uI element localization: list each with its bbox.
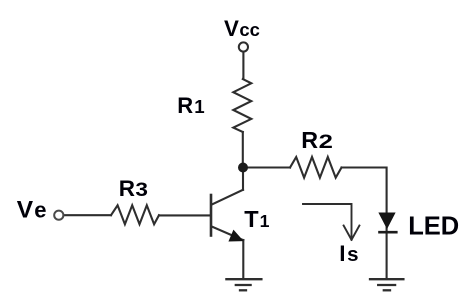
wire Ve terminal to R3 — [64, 214, 112, 216]
transistor T1 emitter diagonal — [212, 227, 244, 241]
LED cathode bar — [378, 231, 397, 234]
ground (emitter) — [226, 279, 261, 290]
resistor R1 — [233, 79, 251, 132]
terminal Vcc — [239, 42, 248, 51]
resistor R3 — [111, 205, 159, 224]
node junction dot — [238, 163, 248, 173]
wire node to R2 — [243, 166, 290, 168]
svg-text:R3: R3 — [119, 176, 148, 201]
transistor T1 base bar — [210, 195, 213, 236]
svg-text:Ve: Ve — [17, 197, 47, 224]
resistor R2 — [290, 157, 342, 178]
wire collector to node — [242, 168, 244, 190]
terminal Ve — [54, 211, 63, 220]
wire R1 to node — [242, 132, 244, 168]
wire LED cathode to ground — [386, 227, 388, 279]
svg-text:Vcc: Vcc — [224, 16, 260, 41]
svg-text:R2: R2 — [301, 127, 333, 153]
current arrow Is — [303, 204, 359, 240]
transistor T1 emitter arrowhead — [229, 231, 242, 241]
wire R2 to LED — [342, 168, 387, 214]
svg-text:LED: LED — [408, 212, 459, 240]
wire emitter to ground — [242, 240, 244, 279]
svg-text:T1: T1 — [244, 206, 269, 232]
wire base to R3 — [159, 214, 210, 216]
LED diode triangle — [379, 213, 395, 228]
svg-text:Is: Is — [339, 241, 358, 266]
transistor T1 collector diagonal — [212, 190, 243, 205]
svg-text:R1: R1 — [177, 93, 204, 118]
wire Vcc to R1 — [242, 52, 244, 79]
ground (LED) — [370, 279, 403, 290]
